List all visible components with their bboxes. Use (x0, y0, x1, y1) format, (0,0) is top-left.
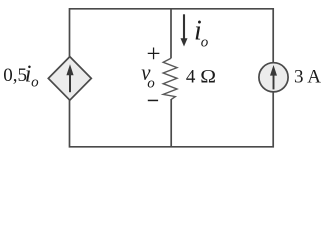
svg-text:o: o (147, 75, 155, 91)
wire outer loop (70, 9, 274, 147)
resistor 4ohm zigzag (163, 58, 177, 99)
dependent source arrow (66, 64, 73, 92)
svg-text:0,5: 0,5 (3, 65, 27, 86)
independent source arrow (270, 65, 277, 89)
label minus (148, 100, 158, 102)
independent current source circle (259, 63, 288, 92)
svg-text:3 A: 3 A (294, 66, 321, 87)
wire middle branch top (170, 9, 172, 59)
svg-text:o: o (31, 75, 39, 91)
dependent current source diamond (48, 57, 91, 101)
svg-text:4: 4 (186, 66, 196, 87)
io current arrow (down) (181, 14, 188, 46)
svg-text:o: o (201, 35, 209, 51)
svg-text:Ω: Ω (200, 66, 216, 87)
wire middle branch bottom (170, 99, 172, 147)
